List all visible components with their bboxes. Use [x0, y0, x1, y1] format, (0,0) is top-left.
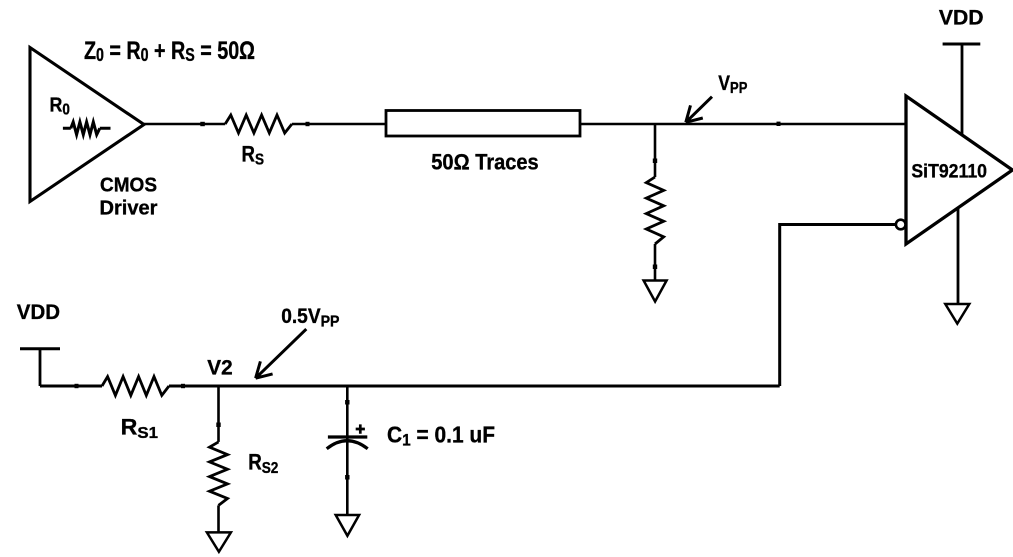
resistor RS [225, 115, 292, 133]
svg-text:50Ω Traces: 50Ω Traces [431, 150, 538, 175]
capacitor C1 plates [327, 437, 368, 449]
wire from termination resistor to ground [654, 244, 657, 281]
wire tick [200, 122, 205, 126]
inversion bubble on U2 lower input [896, 220, 906, 230]
ground (RS2) [207, 532, 231, 551]
wire tick [345, 475, 349, 480]
power VDD rail symbol (bottom left) [20, 349, 60, 386]
resistor R0 (inside driver) [63, 122, 111, 135]
wire bottom bias net [40, 385, 780, 388]
label C1 = 0.1 uF [387, 422, 495, 450]
label SiT92110 [911, 162, 987, 183]
ground (termination resistor) [644, 281, 667, 302]
wire tick [181, 384, 185, 388]
label V2 [207, 357, 232, 380]
label RS [242, 142, 265, 169]
label RS2 [248, 450, 278, 478]
svg-text:Driver: Driver [100, 196, 158, 219]
op-amp U1 CMOS driver triangle [30, 48, 144, 202]
annotation arrow 0.5VPP to node V2 net [256, 329, 307, 378]
wire from bias net down through capacitor C1 [346, 386, 349, 515]
wire tick [216, 423, 220, 428]
capacitor C1 plus polarity mark [356, 424, 365, 433]
node V2: wire down to RS2 [217, 386, 220, 442]
wire tick [653, 265, 657, 270]
label 0.5VPP [281, 305, 339, 330]
ground (C1) [336, 515, 359, 536]
ground (U2) [945, 304, 969, 324]
wire tick [75, 384, 79, 388]
wire from driver output to RS [144, 123, 225, 126]
wire tick [777, 122, 781, 126]
svg-text:VDD: VDD [17, 300, 60, 324]
wire tick [345, 400, 349, 405]
wire from RS to transmission-line box and onward to U2 input [292, 123, 906, 126]
annotation arrow VPP [686, 97, 712, 123]
svg-text:VDD: VDD [939, 6, 984, 30]
svg-text:Z0 = R0 + RS = 50Ω: Z0 = R0 + RS = 50Ω [84, 37, 255, 65]
transmission line box 50 ohm traces [386, 111, 580, 137]
resistor RS2 [210, 442, 228, 506]
svg-text:CMOS: CMOS [100, 174, 157, 197]
wire tick [306, 122, 310, 126]
wire feedback from bias network to U2 bubble input [780, 225, 896, 387]
wire from RS2 to ground [217, 505, 220, 532]
label R0 [50, 93, 70, 118]
label CMOS Driver [100, 174, 158, 220]
resistor RS1 [102, 377, 169, 396]
wire tick [653, 159, 657, 164]
label Z0 = R0 + RS = 50 ohm [84, 37, 255, 65]
label VPP [718, 72, 747, 97]
svg-text:SiT92110: SiT92110 [911, 162, 987, 183]
svg-text:V2: V2 [207, 357, 232, 380]
wire from top net down to termination resistor [654, 124, 657, 177]
resistor termination (unlabeled) [646, 177, 663, 244]
label 50 ohm Traces [431, 150, 538, 175]
power VDD rail symbol (top right) [943, 44, 981, 135]
label VDD (bottom left) [17, 300, 60, 324]
wire from U2 to ground [957, 208, 960, 304]
label VDD (top right) [939, 6, 984, 30]
label RS1 [121, 414, 158, 442]
op-amp U2 SiT92110 buffer triangle [906, 96, 1013, 244]
